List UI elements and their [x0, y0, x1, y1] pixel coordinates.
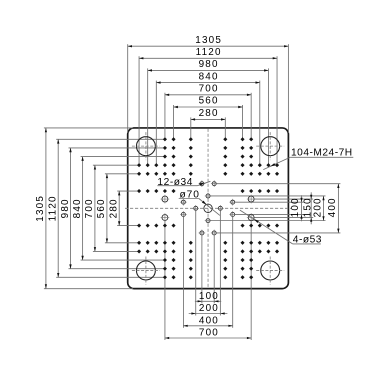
hole o34 at (0,100) [205, 217, 212, 224]
svg-text:100: 100 [199, 291, 219, 302]
extension line row -560 [56, 138, 165, 140]
hole o34 at (-100,0) [192, 205, 199, 212]
tie-bar hole bottom-right [256, 256, 284, 284]
tie-bar hole top-left [132, 132, 160, 160]
hole o34 at (50,200) [211, 230, 218, 237]
extension line right row 100 [210, 220, 325, 222]
extension line row -280 [105, 173, 139, 175]
hole o34 at (200,-50) [229, 199, 236, 206]
dimension 700 top [165, 84, 251, 97]
extension line column -280 [173, 105, 175, 139]
extension line row 140 [117, 225, 139, 227]
extension line column 280 [242, 105, 244, 139]
extension line right row -100 [210, 195, 325, 197]
dimension 1120 left [48, 139, 60, 277]
dimension 840 top [156, 71, 259, 84]
extension line row 350 [93, 250, 139, 252]
extension line bottom column -200 [182, 217, 184, 328]
hole o34 at (-200,-50) [180, 199, 187, 206]
label 4-o53 [240, 210, 322, 245]
extension line bottom column -100 [195, 211, 197, 316]
extension line row -350 [93, 164, 139, 166]
horizontal centerline [125, 207, 291, 209]
extension line bottom column 50 [213, 235, 215, 303]
hole o53 at (350,-75) [247, 195, 256, 204]
extension line right row 200 [216, 232, 340, 234]
svg-text:700: 700 [84, 198, 95, 218]
svg-text:200: 200 [312, 197, 323, 217]
hole o53 at (-350,75) [161, 213, 170, 222]
dimension 560 left [96, 174, 108, 243]
tie-bar hole top-right [256, 132, 284, 160]
extension line row -490 [69, 147, 166, 149]
hole o53 at (350,75) [247, 213, 256, 222]
label 12-o34 [157, 177, 210, 188]
extension line column -420 [155, 81, 157, 166]
extension line row 420 [81, 259, 166, 261]
extension line column -560 [138, 56, 140, 165]
svg-text:560: 560 [199, 96, 219, 107]
tie-bar hole bottom-left [132, 256, 160, 284]
extension line right row -75 [254, 198, 313, 200]
extension line column 560 [276, 56, 278, 165]
svg-text:980: 980 [60, 198, 71, 218]
dimension 100 right [290, 195, 302, 221]
svg-text:100: 100 [290, 197, 301, 217]
extension line plate left edge top [127, 44, 129, 133]
extension line row -420 [81, 156, 166, 158]
vertical centerline [207, 129, 209, 288]
svg-text:1305: 1305 [35, 195, 46, 222]
svg-text:1305: 1305 [195, 35, 222, 46]
extension line row 280 [105, 242, 139, 244]
extension line right row -50 [235, 201, 304, 203]
extension line bottom column 200 [232, 217, 234, 328]
extension line row 560 [56, 276, 165, 278]
dimension 100 bottom [195, 291, 221, 303]
dimension 1305 left [35, 128, 47, 289]
dimension 700 left [84, 165, 96, 251]
104x M24-7H tapped holes grid [137, 137, 279, 279]
extension line plate right edge top [287, 44, 289, 133]
svg-text:280: 280 [199, 108, 219, 119]
svg-text:12-ø34: 12-ø34 [157, 177, 193, 188]
extension line column -350 [164, 93, 166, 140]
extension line column 420 [259, 81, 261, 166]
svg-text:700: 700 [199, 84, 219, 95]
dimension 560 top [174, 96, 243, 109]
hole o53 at (-350,-75) [161, 195, 170, 204]
hole o34 at (200,50) [229, 211, 236, 218]
extension line column -490 [147, 68, 149, 165]
extension line bottom column -50 [201, 235, 203, 303]
svg-text:560: 560 [96, 198, 107, 218]
dimension 200 right [312, 196, 324, 221]
dimension 1305 top [128, 35, 289, 48]
hole o34 at (0,-100) [205, 193, 212, 200]
svg-text:200: 200 [199, 303, 219, 314]
svg-text:980: 980 [199, 59, 219, 70]
extension line bottom column -350 [164, 221, 166, 340]
svg-text:1120: 1120 [196, 47, 222, 58]
dimension 280 top [191, 108, 226, 121]
svg-text:700: 700 [199, 328, 219, 339]
hole o70 center [204, 204, 212, 212]
svg-text:400: 400 [327, 197, 338, 217]
hole o34 at (-50,200) [199, 230, 206, 237]
dimension 150 right [303, 192, 314, 224]
hole o34 at (50,-200) [211, 180, 218, 187]
extension line row -140 [117, 190, 139, 192]
hole o34 at (-200,50) [180, 211, 187, 218]
hole o34 at (100,0) [217, 205, 224, 212]
dimension 400 bottom [183, 315, 232, 327]
extension line bottom column 100 [219, 211, 221, 316]
svg-text:1120: 1120 [48, 195, 59, 221]
dimension 400 right [327, 184, 339, 233]
dimension 980 left [60, 148, 72, 269]
svg-text:840: 840 [199, 71, 219, 82]
svg-text:840: 840 [72, 198, 83, 218]
hole o34 at (-50,-200) [199, 180, 206, 187]
extension line bottom column 350 [250, 221, 252, 340]
label o70 [179, 190, 220, 216]
svg-text:280: 280 [109, 198, 120, 218]
extension line right row 50 [235, 213, 304, 215]
dimension 980 top [148, 59, 269, 72]
extension line plate bottom edge left [44, 288, 133, 290]
extension line column -140 [190, 117, 192, 139]
extension line column 350 [250, 93, 252, 140]
extension line column 140 [224, 117, 226, 139]
extension line plate top edge left [44, 127, 133, 129]
extension line row 490 [69, 268, 166, 270]
dimension 700 bottom [165, 328, 251, 340]
extension line right row 75 [254, 217, 313, 219]
label 104-M24-7H [263, 148, 353, 170]
platen plate outline [128, 128, 289, 289]
dimension 200 bottom [189, 303, 228, 315]
extension line right row -200 [216, 183, 340, 185]
dimension 1120 top [139, 47, 277, 59]
dimension 280 left [109, 191, 121, 226]
extension line column 490 [267, 68, 269, 165]
svg-text:400: 400 [199, 315, 219, 326]
dimension 840 left [72, 157, 84, 260]
